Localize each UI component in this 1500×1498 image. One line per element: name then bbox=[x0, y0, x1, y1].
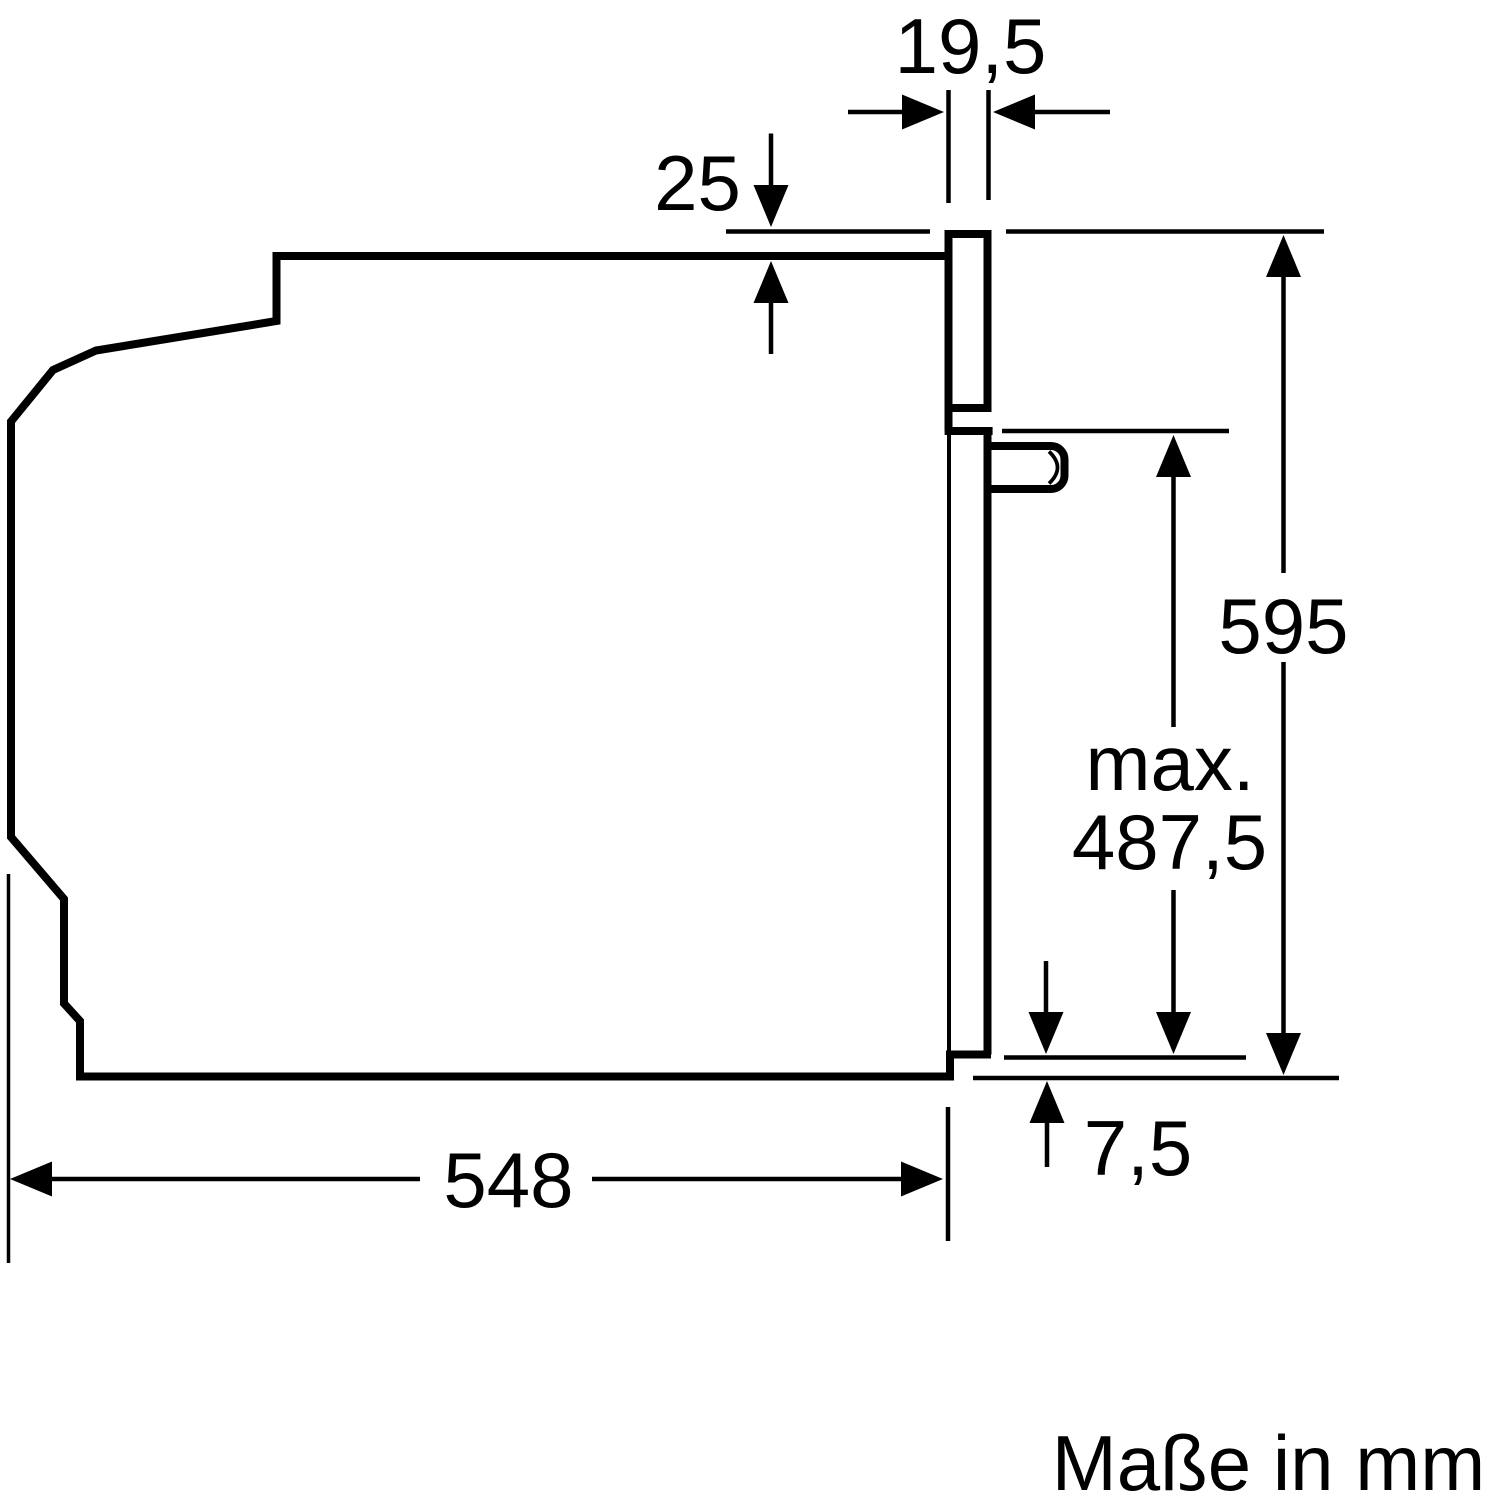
body front face thin line bbox=[947, 434, 951, 1051]
dim 487,5 line upper segment bbox=[1171, 477, 1176, 727]
svg-text:Maße in mm: Maße in mm bbox=[1052, 1419, 1485, 1498]
dim 595 line upper segment bbox=[1281, 277, 1286, 573]
svg-text:595: 595 bbox=[1218, 582, 1348, 670]
dim 7,5 upper arrow bbox=[1044, 961, 1049, 1013]
niche reference line right piece / 595 top extension bbox=[1006, 229, 1324, 234]
niche reference line left piece bbox=[726, 229, 930, 234]
dim 595 top arrow bbox=[1266, 235, 1301, 277]
dim 19,5 right arrow bbox=[1034, 110, 1110, 115]
dim 25 lower arrow bbox=[754, 261, 789, 303]
dim 19,5 right extension line bbox=[986, 90, 991, 200]
dim 548 right arrow bbox=[592, 1177, 901, 1182]
dim 548 right extension line bbox=[946, 1107, 951, 1241]
svg-text:25: 25 bbox=[654, 139, 741, 227]
dim 487,5 bottom arrow bbox=[1156, 1012, 1191, 1054]
dim 548 left extension line bbox=[7, 874, 11, 1263]
oven body outline bbox=[11, 256, 991, 1077]
dim 595 bottom arrow bbox=[1266, 1033, 1301, 1075]
dim 19,5 left extension line bbox=[946, 90, 951, 203]
dim 487,5 top arrow bbox=[1156, 435, 1191, 477]
dim 487,5 top extension line bbox=[1002, 429, 1229, 434]
svg-text:19,5: 19,5 bbox=[895, 2, 1047, 90]
door control panel rectangle bbox=[949, 234, 988, 408]
dim 7,5 lower arrow bbox=[1030, 1081, 1065, 1123]
svg-text:7,5: 7,5 bbox=[1084, 1104, 1192, 1192]
dim 25 upper arrow bbox=[769, 134, 774, 187]
dim 548 left arrow bbox=[10, 1162, 52, 1197]
knob inner arc bbox=[1049, 452, 1058, 484]
dim 19,5 left arrow bbox=[848, 110, 903, 115]
body bottom extension line bbox=[973, 1076, 1339, 1081]
dim 487,5 line lower segment bbox=[1171, 890, 1176, 1012]
door bottom extension line bbox=[1004, 1055, 1246, 1060]
dim 595 line lower segment bbox=[1281, 662, 1286, 1034]
knob bbox=[991, 446, 1065, 489]
svg-text:487,5: 487,5 bbox=[1072, 798, 1267, 886]
door front vertical line bbox=[984, 431, 992, 1055]
svg-text:max.: max. bbox=[1085, 719, 1254, 807]
svg-text:548: 548 bbox=[443, 1136, 573, 1224]
front frame step below panel bbox=[945, 404, 993, 431]
